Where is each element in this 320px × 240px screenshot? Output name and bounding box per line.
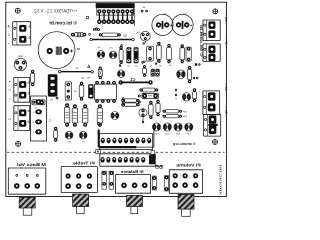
svg-text:Pi Volume: Pi Volume — [175, 163, 200, 168]
svg-text:LSP: LSP — [182, 110, 187, 113]
box on dashed line 2 — [151, 151, 155, 155]
capacitor C13 — [182, 93, 190, 101]
jumper wire J1 — [90, 38, 134, 40]
PCB board outline — [0, 0, 231, 218]
resistor R27 — [79, 82, 84, 101]
terminal block OUT-L — [203, 44, 220, 62]
svg-text:+: + — [9, 80, 11, 84]
capacitor C23 — [109, 171, 114, 189]
pads near D1 — [93, 28, 100, 31]
resistor R7 — [119, 46, 123, 64]
dashed cut line — [7, 151, 225, 153]
resistor R23 — [97, 104, 102, 127]
svg-text:© tei.com.br: © tei.com.br — [49, 20, 77, 26]
resistor R1 under header — [99, 33, 127, 37]
resistor R8 — [147, 46, 154, 61]
potentiometer Treble — [61, 160, 97, 213]
label OUT-R — [224, 14, 228, 24]
capacitor C15 — [111, 112, 119, 120]
resistor R9 — [149, 42, 171, 68]
pads above C2 — [141, 6, 148, 12]
pads left of C13 — [175, 89, 177, 101]
connector P1 (4-pin) — [31, 96, 51, 141]
capacitor C16 — [65, 131, 73, 143]
mounting hole top-right — [212, 9, 218, 15]
resistor R19 — [143, 65, 147, 77]
resistor R12 — [188, 66, 192, 83]
resistor R24 — [54, 97, 59, 142]
title text TDA73XX (mirrored) — [34, 8, 77, 14]
svg-text:C1: C1 — [76, 47, 80, 51]
text extranie (mirrored) — [173, 142, 195, 146]
pad column — [122, 97, 125, 107]
stray pads midband — [88, 42, 158, 67]
resistor R14 — [139, 88, 158, 92]
terminal block OUT-R — [203, 20, 220, 41]
capacitor C2 — [152, 13, 173, 36]
capacitor C17 — [79, 131, 87, 143]
capacitor C1 (large electrolytic) — [38, 32, 80, 69]
pads w labels — [193, 63, 201, 79]
svg-text:© tei.com.br: © tei.com.br — [199, 24, 204, 56]
terminal block CD-IN — [204, 114, 221, 136]
capacitor C18 — [152, 123, 160, 136]
terminal block X1 (top-left power) — [7, 22, 31, 46]
diode D3 — [32, 100, 45, 110]
capacitor C8 — [97, 46, 105, 58]
header strip JP2 (upper 9-pin) — [99, 134, 152, 150]
header connector JP1 — [96, 3, 135, 26]
potentiometer Volume — [169, 163, 202, 217]
resistor R26 — [163, 115, 188, 119]
svg-text:C1: C1 — [123, 35, 127, 38]
wire thick trace — [97, 122, 154, 147]
capacitor C21 — [185, 123, 193, 136]
svg-text:KCX: KCX — [71, 10, 77, 13]
capacitor C22 — [102, 171, 107, 189]
resistor R11 — [180, 44, 185, 63]
capacitor C20 — [174, 123, 182, 136]
diode D2 vertical — [65, 82, 76, 100]
header strip JP3 (lower 9-pin) — [100, 154, 156, 166]
small caps pair — [156, 165, 163, 168]
terminal block X2 (mid-left) — [8, 77, 30, 102]
resistor R21 — [72, 104, 77, 127]
svg-text:C2: C2 — [163, 13, 167, 16]
svg-text:7805: 7805 — [17, 55, 23, 58]
potentiometer Bass Vol — [8, 162, 46, 215]
capacitor C14 — [139, 109, 147, 124]
mounting hole bottom-right — [212, 139, 218, 145]
svg-text:S: S — [8, 34, 10, 37]
text tei.com.br (mirrored) — [49, 20, 77, 26]
resistor R16 — [121, 103, 139, 106]
svg-text:Pi Treble: Pi Treble — [72, 160, 95, 165]
capacitor C25 — [164, 176, 168, 192]
capacitor C26 — [117, 65, 124, 77]
capacitor C19 — [163, 123, 171, 136]
capacitor C24 — [152, 176, 156, 190]
svg-text:- XA +: - XA + — [224, 84, 228, 93]
resistor R13 — [193, 88, 197, 102]
diode D1 — [71, 33, 91, 37]
terminal block AUX — [203, 91, 220, 115]
pads col — [138, 95, 141, 104]
terminal block X3 (lower-left) — [7, 106, 29, 131]
box on dashed line 1 — [96, 150, 101, 154]
resistor R22 — [83, 104, 88, 127]
svg-text:C5: C5 — [75, 67, 79, 70]
svg-text:TDA73XX 2.1 - V 3.2: TDA73XX 2.1 - V 3.2 — [34, 8, 72, 14]
resistor R15 — [121, 99, 139, 102]
resistor R10 — [167, 44, 172, 63]
capacitor C11 (black bar) — [134, 47, 139, 63]
svg-text:xtronic.ter: xtronic.ter — [218, 162, 222, 195]
mounting hole bottom-left — [15, 141, 21, 147]
vertical text tei.com.br right — [199, 24, 204, 56]
label OUT-L — [224, 38, 228, 47]
dominoes pads — [151, 69, 159, 76]
pad near JP1 left — [86, 16, 98, 30]
wire trace IC1 — [119, 77, 153, 85]
capacitor C27 (black bar) — [88, 84, 93, 98]
vertical text bottom right — [218, 162, 222, 195]
component X2 — [80, 67, 102, 81]
labels under bars — [127, 65, 138, 68]
resistor R20 — [64, 103, 69, 127]
resistor R25 — [163, 110, 188, 114]
capacitor C9 — [109, 46, 117, 59]
svg-text:- SX +: - SX + — [224, 107, 228, 116]
capacitor C10 (black bar) — [126, 47, 131, 63]
resistor R2 — [31, 70, 35, 86]
link LK1 (big pads) — [142, 93, 158, 98]
transistor Q1 — [14, 55, 26, 71]
connector D1 (3-pin black) — [48, 74, 58, 101]
capacitor C12 — [177, 70, 186, 79]
svg-text:- SP +: - SP + — [224, 38, 228, 47]
capacitor C3 — [172, 13, 193, 36]
op-amp U2 (DIP-8) — [95, 81, 117, 103]
potentiometer Balance — [115, 169, 150, 214]
transistor Q3 — [136, 31, 150, 43]
resistor R11b — [186, 47, 191, 61]
svg-text:M Bass Vol: M Bass Vol — [17, 162, 46, 167]
label AUX — [224, 84, 228, 93]
svg-text:Si Balance: Si Balance — [120, 169, 144, 174]
resistor R18 — [156, 100, 160, 116]
label CD-IN — [224, 107, 228, 116]
svg-text:C1: C1 — [129, 77, 135, 82]
resistor R17 — [149, 101, 153, 119]
svg-text:ESR: ESR — [182, 115, 187, 118]
svg-text:- WK +: - WK + — [224, 14, 228, 24]
mounting hole top-left — [15, 8, 21, 14]
svg-text:C3: C3 — [183, 13, 187, 16]
svg-text:© xtronic.org: © xtronic.org — [173, 142, 195, 146]
jumper wire C5 — [59, 67, 94, 73]
